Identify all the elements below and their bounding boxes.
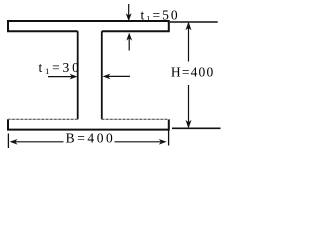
bottom flange outline (8, 119, 169, 129)
H dimension down arrowhead (186, 120, 192, 128)
svg-text:B=400: B=400 (66, 130, 113, 145)
H dimension up arrowhead (186, 22, 192, 31)
B dimension left arrowhead (10, 139, 18, 145)
top extension line (170, 21, 218, 23)
B dimension line left segment (11, 141, 64, 143)
svg-text:t1=50: t1=50 (141, 8, 180, 24)
bottom flange top edge left (gray dashed) (8, 118, 78, 120)
t1=50 up arrow (128, 39, 130, 51)
svg-text:t1=30: t1=30 (39, 60, 82, 76)
bottom flange top edge right (gray dashed) (102, 118, 169, 120)
B dimension line right segment (115, 141, 165, 143)
web right line (101, 31, 103, 119)
top flange outline (8, 21, 169, 31)
B extension line left (7, 134, 9, 149)
H dimension line upper segment (188, 23, 190, 62)
t1=30 left arrow (107, 75, 130, 77)
svg-text:H=400: H=400 (171, 65, 214, 80)
web left line (77, 31, 79, 119)
B extension line right (168, 131, 170, 146)
B dimension right arrowhead (159, 139, 167, 145)
H dimension line lower segment (188, 85, 190, 127)
t1=50 down arrow (128, 4, 130, 19)
bottom extension line (172, 127, 221, 129)
t1=30 right arrow (48, 76, 74, 78)
